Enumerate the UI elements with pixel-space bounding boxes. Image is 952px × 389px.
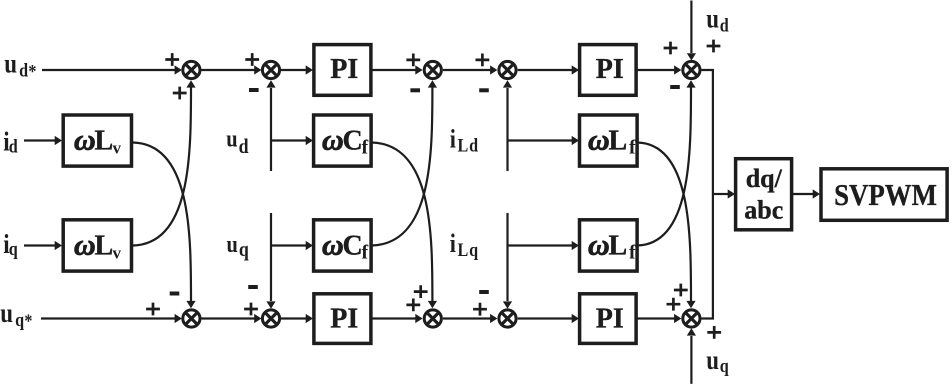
- sign + at S3 left: [406, 54, 420, 67]
- svg-text:ω: ω: [588, 228, 610, 261]
- svg-text:L: L: [95, 230, 114, 261]
- svg-text:ω: ω: [322, 228, 344, 261]
- summing junction S5: [683, 61, 700, 78]
- summing junction S1: [183, 61, 200, 78]
- block wCf upper (u_d decoupling): [314, 115, 372, 166]
- label i_Lq feedback: [450, 230, 479, 260]
- summing junction S1b: [183, 310, 200, 327]
- svg-text:ω: ω: [74, 123, 96, 156]
- svg-text:PI: PI: [330, 304, 358, 335]
- block dq/abc transform: [736, 159, 792, 230]
- sign + at S5b left: [667, 298, 681, 311]
- block wLv lower (i_q decoupling): [63, 220, 131, 271]
- wire wLv upper to S1b (cross): [133, 143, 191, 302]
- label i_d input: [3, 128, 18, 157]
- svg-text:L: L: [95, 125, 114, 156]
- wire wCf upper to S3b (cross): [372, 143, 433, 302]
- block SVPWM: [821, 169, 947, 221]
- svg-text:L: L: [457, 134, 468, 156]
- wire i_Lq branch into wLf: [508, 244, 573, 246]
- svg-text:SVPWM: SVPWM: [834, 178, 937, 212]
- wire S4b to PI (q current loop): [518, 317, 573, 319]
- wire u_q* reference input: [41, 317, 175, 319]
- svg-text:d: d: [720, 14, 729, 36]
- sign + at S4b left: [473, 303, 487, 316]
- svg-text:f: f: [629, 136, 636, 158]
- svg-text:*: *: [24, 310, 32, 332]
- svg-text:d: d: [239, 136, 249, 159]
- wire S2b to PI (q voltage loop): [281, 317, 307, 319]
- svg-text:u: u: [0, 299, 13, 328]
- svg-text:L: L: [609, 230, 628, 261]
- sign + at S1 left: [165, 53, 179, 66]
- sign - at S1b top: [170, 292, 180, 296]
- sign + at S4 left: [476, 54, 490, 67]
- wire u_d branch into wCf: [271, 139, 307, 141]
- svg-text:u: u: [706, 346, 719, 375]
- svg-text:ω: ω: [74, 228, 96, 261]
- sign + at S1 bottom: [173, 87, 187, 100]
- svg-text:u: u: [226, 125, 237, 152]
- summing junction S2: [262, 61, 279, 78]
- label u_q* (q-axis voltage reference): [0, 299, 32, 331]
- wire PI to S5: [637, 69, 676, 71]
- wire S3 to S4: [443, 69, 491, 71]
- svg-text:PI: PI: [596, 54, 624, 85]
- wire wLf lower to S5 (cross): [638, 87, 692, 246]
- svg-text:L: L: [457, 239, 468, 261]
- wire u_d measurement stub into S2: [270, 88, 272, 171]
- sign - at S2b top: [248, 285, 258, 289]
- wire u_d* reference input: [42, 69, 175, 71]
- sign + at S2b left: [244, 303, 258, 316]
- svg-text:ω: ω: [322, 123, 344, 156]
- wire PI to S3: [372, 69, 417, 71]
- summing junction S3b: [424, 310, 441, 327]
- wire u_q branch into wCf: [271, 244, 307, 246]
- svg-text:u: u: [706, 5, 719, 34]
- svg-text:q: q: [239, 239, 249, 262]
- svg-text:f: f: [362, 241, 369, 263]
- wire S5b output to dq/abc (q): [702, 194, 713, 319]
- sign + at S5 left: [664, 42, 678, 55]
- sign + at S3b top: [414, 285, 428, 298]
- svg-text:q: q: [469, 239, 478, 261]
- wire i_Ld branch into wLf: [508, 139, 573, 141]
- label u_q measured: [227, 230, 249, 261]
- svg-text:v: v: [113, 138, 122, 157]
- label u_q feedforward (bottom right): [706, 346, 729, 376]
- summing junction S5b: [683, 310, 700, 327]
- sign + at S3b left: [406, 299, 420, 312]
- svg-text:ω: ω: [588, 123, 610, 156]
- wire into dq/abc block: [713, 193, 729, 195]
- svg-text:v: v: [113, 243, 122, 262]
- wire i_d input: [24, 139, 56, 141]
- block PI d-current regulator: [580, 45, 637, 96]
- svg-text:d: d: [19, 59, 28, 81]
- summing junction S4b: [499, 310, 516, 327]
- sign - at S2 bottom: [249, 88, 259, 92]
- svg-text:q: q: [720, 355, 729, 377]
- label u_d measured: [226, 125, 248, 158]
- sign + at S2 left: [245, 53, 259, 66]
- summing junction S3: [424, 61, 441, 78]
- svg-text:f: f: [362, 136, 369, 158]
- svg-text:f: f: [629, 241, 636, 263]
- block PI q-voltage regulator: [314, 294, 371, 344]
- label i_q input: [3, 230, 18, 259]
- svg-text:L: L: [609, 125, 628, 156]
- summing junction S2b: [262, 310, 279, 327]
- svg-text:PI: PI: [330, 54, 358, 85]
- wire wCf lower to S3 (cross): [372, 87, 433, 246]
- label u_d feedforward (top right): [706, 5, 729, 36]
- wire i_q input: [24, 244, 56, 246]
- svg-text:abc: abc: [744, 196, 783, 225]
- wire u_q feedforward from bottom: [690, 336, 692, 384]
- sign + at S1b left: [146, 303, 160, 316]
- wire u_q measurement stub into S2b: [270, 213, 272, 301]
- block PI d-voltage regulator: [314, 45, 371, 96]
- wire dq/abc to SVPWM: [792, 193, 814, 195]
- svg-text:PI: PI: [596, 304, 624, 335]
- sign - at S4b top: [479, 290, 489, 294]
- svg-text:u: u: [4, 50, 17, 79]
- svg-text:u: u: [227, 230, 238, 257]
- sign + at S5 top: [707, 40, 721, 53]
- wire S1 to S2: [201, 69, 255, 71]
- sign - at S3 bottom: [410, 88, 420, 92]
- wire wLv lower to S1 (cross): [133, 87, 191, 246]
- svg-text:d: d: [9, 135, 18, 157]
- wire i_Lq feedback stub into S4b: [506, 213, 508, 301]
- block wLf upper (i_Ld decoupling): [580, 115, 638, 166]
- svg-text:dq/: dq/: [746, 164, 783, 193]
- sign + at S5b bottom: [707, 326, 721, 339]
- svg-text:q: q: [15, 309, 24, 331]
- wire i_Ld feedback stub into S4: [506, 88, 508, 171]
- wire S2 to PI (d voltage loop): [281, 69, 307, 71]
- block wLf lower (i_Lq decoupling): [580, 220, 638, 271]
- wire S5 output to dq/abc (d): [702, 70, 713, 194]
- svg-text:C: C: [343, 125, 363, 156]
- sign + at S5b top: [674, 284, 688, 297]
- wire u_d feedforward from top: [690, 1, 692, 54]
- sign - at S4 bottom: [479, 88, 489, 92]
- wire S1b to S2b: [201, 317, 255, 319]
- wire S4 to PI (d current loop): [518, 69, 573, 71]
- svg-text:d: d: [469, 134, 478, 156]
- wire PI to S3b: [372, 317, 417, 319]
- svg-text:C: C: [343, 230, 363, 261]
- svg-text:i: i: [450, 126, 456, 154]
- wire wLf upper to S5b (cross): [638, 143, 692, 302]
- svg-text:q: q: [9, 238, 18, 260]
- label u_d* (d-axis voltage reference): [4, 50, 36, 82]
- sign - at S5 bottom: [670, 85, 680, 89]
- block wCf lower (u_q decoupling): [314, 220, 372, 271]
- summing junction S4: [499, 61, 516, 78]
- wire PI to S5b: [637, 317, 676, 319]
- svg-text:*: *: [28, 60, 36, 82]
- block PI q-current regulator: [580, 294, 637, 344]
- svg-text:i: i: [450, 230, 456, 258]
- block wLv upper (i_d decoupling): [63, 115, 131, 166]
- wire S3b to S4b: [443, 317, 491, 319]
- label i_Ld feedback: [450, 126, 479, 156]
